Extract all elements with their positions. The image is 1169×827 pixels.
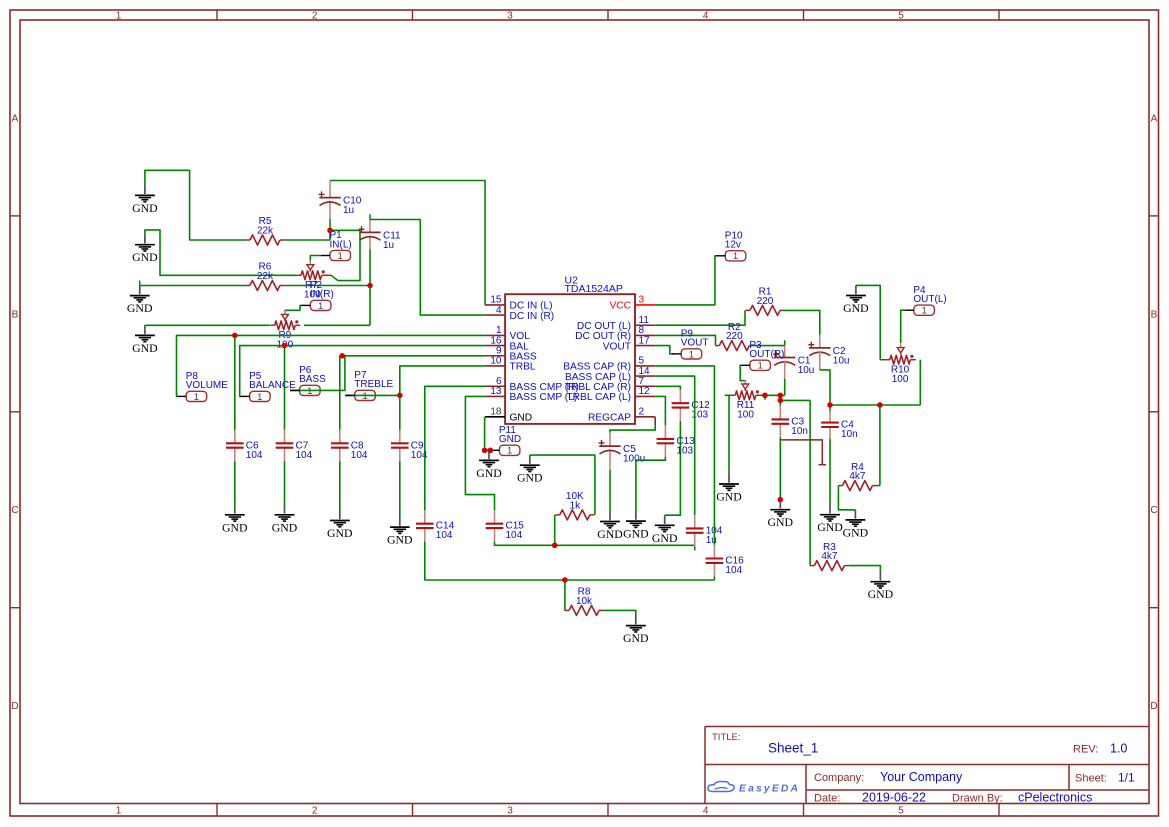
wire P3 to R11 wiper [740,365,745,382]
wire U2 pin12 to C13 [655,396,665,425]
resistor 10K 1k [555,491,594,520]
resistor R4 4k7 [838,462,880,491]
potentiometer R10 100 [880,355,916,385]
wire R8 to ground [604,610,636,615]
U2 pin 4 DC IN (R) [485,305,554,322]
op-amp U2 TDA1524AP body [505,275,635,424]
wire G1 to R5 [145,170,246,240]
svg-text:1: 1 [257,392,262,403]
svg-text:104: 104 [506,530,523,541]
svg-text:GND: GND [476,466,502,480]
svg-text:GND: GND [132,250,158,264]
svg-text:5: 5 [898,10,904,21]
svg-text:100: 100 [892,374,909,385]
wire cap bottom stub [694,546,696,550]
ground G15 [768,500,794,530]
wire VOL net P8 to U2 pin1 [177,335,485,396]
wire C8 to ground [339,461,341,510]
ground G19 [843,285,869,315]
svg-text:2: 2 [312,806,318,817]
svg-text:2: 2 [312,10,318,21]
R7 wiper arrow [307,260,314,271]
svg-text:DC IN (R): DC IN (R) [510,311,555,322]
ground G12 [623,511,649,541]
wire U2 pin18 to P11 ground [485,417,490,451]
svg-text:104: 104 [436,530,453,541]
U2 pin 9 BASS [485,346,537,363]
svg-text:VCC: VCC [609,301,631,312]
svg-text:BALANCE: BALANCE [249,380,296,391]
capacitor C3 10n [772,400,808,437]
resistor R5 22k [246,216,285,245]
svg-text:C: C [11,505,18,516]
U2 pin 11 DC OUT (L) [577,315,655,332]
svg-text:IN(L): IN(L) [330,239,352,250]
svg-text:1u: 1u [343,205,354,216]
capacitor C12 103 [672,390,711,421]
wire G10 to 10K resistor [530,455,595,515]
svg-text:GND: GND [517,471,543,485]
svg-text:C: C [1150,505,1157,516]
wire U2 pin17 to P9 [655,346,673,354]
U2 pin 5 BASS CAP (R) [563,356,655,373]
svg-text:GND: GND [623,527,649,541]
header P11 GND [490,425,521,457]
wire VCC U2 pin3 to P10 [655,256,716,305]
svg-text:1/1: 1/1 [1118,771,1135,785]
wire G4 to R9 [145,324,270,326]
svg-text:Sheet_1: Sheet_1 [768,741,818,756]
svg-text:GND: GND [327,526,353,540]
svg-text:GND: GND [623,631,649,645]
header P6 BASS [290,365,326,397]
wire U2 pin11 to R1 [655,310,745,325]
wire U2 pin2 REGCAP to C5 [610,417,655,433]
wire C11 top to U2 pin4 [370,214,485,315]
svg-text:10n: 10n [791,426,808,437]
ground G3 [127,281,153,316]
wire node D rail to R10 [919,360,921,405]
svg-text:GND: GND [132,201,158,215]
ground G5 [222,505,248,535]
svg-text:220: 220 [726,331,743,342]
svg-text:104: 104 [351,450,368,461]
svg-text:GND: GND [510,413,533,424]
wire C12 to ground [665,421,681,515]
header P5 BALANCE [240,371,296,403]
svg-text:B: B [1151,309,1158,320]
wire C7 to ground [284,461,286,505]
header P3 OUT(R) [741,340,785,372]
svg-text:D: D [11,701,18,712]
svg-text:REV:: REV: [1073,744,1098,756]
svg-text:12: 12 [639,386,651,397]
wire TRBL net to U2 pin10 [400,366,485,396]
ground G20 [623,616,649,646]
svg-text:GND: GND [716,490,742,504]
wire C6 to ground [234,461,236,505]
svg-text:OUT(R): OUT(R) [749,349,784,360]
capacitor C11 1u [359,218,402,251]
node bottom rail junction [562,577,567,582]
svg-text:104: 104 [725,565,742,576]
svg-text:1k: 1k [570,500,582,511]
wire C13 to ground [636,457,666,511]
svg-text:4: 4 [496,305,502,316]
U2 pin 15 DC IN (L) [485,295,553,312]
svg-text:104: 104 [246,450,263,461]
svg-text:1: 1 [318,301,323,312]
svg-text:TREBLE: TREBLE [354,379,393,390]
wire P2 to R9 wiper [285,305,301,312]
node R11 dots [762,393,783,404]
ground G10 [517,455,543,485]
svg-text:GND: GND [652,531,678,545]
potentiometer R11 100 [731,390,761,420]
wire node to R3 column [780,400,810,565]
svg-text:GND: GND [597,527,623,541]
U2 pin 14 BASS CAP (L) [565,366,655,383]
ground G18 [868,572,894,602]
svg-text:4: 4 [703,806,709,817]
wire R6 to node B [284,285,370,287]
U2 pin 8 DC OUT (R) [575,325,655,342]
svg-text:13: 13 [490,386,502,397]
svg-text:10n: 10n [841,429,858,440]
wire C3 to ground [778,437,783,502]
wire C4 to ground [829,439,831,505]
capacitor C1 10u [773,346,814,376]
resistor R8 10k [565,587,604,616]
capacitor C8 104 [331,430,368,461]
svg-text:18: 18 [490,407,502,418]
svg-text:GND: GND [843,301,869,315]
wire node A to C11 column [330,230,360,280]
capacitor C10 1u [319,181,362,231]
wire P1 to R7 wiper [310,256,320,262]
capacitor C15 104 [486,510,525,541]
wire G19 to R10 left [856,285,880,359]
wire C2 to node D [820,351,830,405]
svg-text:1.0: 1.0 [1110,742,1127,756]
wire U2 pin7 to C12 [655,386,680,389]
wire G2 to R7 [145,230,297,275]
capacitor C13 103 [657,425,696,456]
wire BAL to C7 [284,346,286,430]
U2 pin 2 REGCAP [588,407,655,424]
svg-text:1: 1 [116,806,122,817]
svg-text:22k: 22k [257,225,274,236]
svg-text:1: 1 [733,251,738,262]
svg-text:Your Company: Your Company [880,770,963,784]
svg-text:EasyEDA: EasyEDA [739,784,800,795]
header P4 OUT(L) [905,285,947,317]
wire R1 to C2 [785,310,820,334]
U2 pin 3 VCC [609,295,655,312]
wire VOL to C6 [234,335,236,430]
junction dots overlay [232,228,883,583]
node B junction [367,283,372,288]
svg-text:IN(R): IN(R) [310,289,334,300]
svg-text:VOUT: VOUT [681,338,709,349]
wire node E to R4 [879,405,881,486]
node A junction [327,228,332,233]
svg-text:GND: GND [868,587,894,601]
U2 pin 6 BASS CMP (R) [485,376,579,393]
ground G7 [327,510,353,540]
svg-text:VOUT: VOUT [603,341,631,352]
node VOL junction [232,333,237,338]
capacitor C14 104 [416,510,455,541]
wire C16 to bottom rail [713,576,715,580]
svg-text:2: 2 [639,407,645,418]
svg-text:220: 220 [757,296,774,307]
svg-text:GND: GND [499,434,521,445]
svg-text:5: 5 [898,806,904,817]
ground G9 [476,450,502,480]
potentiometer R7 100 [297,270,338,300]
node TRBL junction [397,393,402,398]
ground G17 [843,510,869,540]
header P7 TREBLE [346,370,394,402]
U2 pin 7 TRBL CAP (R) [565,376,655,393]
wire U2 pin13 to C15 [465,396,494,510]
wire C9 to ground [399,461,401,517]
svg-text:1: 1 [362,391,367,402]
wire BAL net P5 to U2 pin16 [240,346,485,397]
svg-text:GND: GND [817,520,843,534]
svg-text:Drawn By:: Drawn By: [952,793,1003,805]
svg-text:GND: GND [127,301,153,315]
svg-text:TITLE:: TITLE: [712,732,741,743]
wire P4 to R10 wiper [901,310,905,343]
floating stub near C3 [781,440,826,465]
svg-text:TRBL: TRBL [510,362,536,373]
ground G11 [597,511,623,541]
svg-text:D: D [1150,701,1157,712]
svg-text:104: 104 [296,450,313,461]
svg-text:A: A [12,114,19,125]
svg-text:GND: GND [843,525,869,539]
svg-text:100u: 100u [623,454,645,465]
node E junction [877,402,882,407]
svg-text:1: 1 [338,251,343,262]
svg-text:GND: GND [272,520,298,534]
wire R4 left to ground [838,486,855,510]
svg-text:4k7: 4k7 [821,551,838,562]
wire U2 pin5 to C16 [655,366,714,545]
header P1 IN(L) [321,230,352,262]
wire P7 pin [345,394,400,396]
capacitor 104 1u [686,515,723,546]
header P8 VOLUME [177,371,228,403]
wire R5 to node A [285,230,331,240]
svg-text:GND: GND [387,533,413,547]
ground G4 [132,325,158,355]
R10 wiper arrow [897,343,904,354]
svg-text:GND: GND [132,341,158,355]
wire C1 bottom to R11 net [784,361,786,396]
svg-text:1u: 1u [383,240,394,251]
wire node D rail [830,404,920,406]
wire R2 to C1 top [753,340,785,345]
svg-text:103: 103 [676,445,693,456]
svg-text:100: 100 [737,410,754,421]
node D junction [827,402,832,412]
ground G14 [716,474,742,504]
svg-text:OUT(L): OUT(L) [913,294,946,305]
wire R11 right net [760,394,784,396]
svg-text:TDA1524AP: TDA1524AP [565,283,623,295]
resistor R2 220 [716,322,754,351]
header P9 VOUT [672,329,709,361]
capacitor C5 100u [599,433,646,471]
wire BASS to C8 [339,356,341,430]
svg-text:BASS: BASS [299,374,326,385]
wire R3 to ground [849,566,881,572]
svg-text:2019-06-22: 2019-06-22 [862,791,926,805]
svg-text:1: 1 [116,10,122,21]
svg-text:10u: 10u [833,355,850,366]
svg-text:3: 3 [507,806,513,817]
svg-text:17: 17 [639,335,651,346]
wire BASS net to U2 pin9 [340,355,485,357]
capacitor C4 10n [821,411,857,441]
EasyEDA logo [708,782,800,795]
svg-text:10: 10 [490,356,502,367]
svg-text:REGCAP: REGCAP [588,413,631,424]
wire TRBL to C9 [399,395,401,429]
svg-text:Company:: Company: [814,772,864,784]
ground G1 [132,185,158,215]
resistor R1 220 [746,287,785,316]
U2 pin 18 GND [485,407,532,424]
capacitor C7 104 [276,430,313,461]
svg-text:Sheet:: Sheet: [1075,773,1107,785]
svg-text:1: 1 [194,392,199,403]
header P10 12v [716,230,746,262]
svg-text:cPelectronics: cPelectronics [1018,791,1092,805]
svg-text:4: 4 [703,10,709,21]
R11 wiper arrow [742,380,749,391]
svg-text:1: 1 [689,349,694,360]
potentiometer R9 100 [270,320,300,350]
wire BASS to P6 [290,356,345,391]
U2 pin 13 BASS CMP (L) [485,386,577,403]
capacitor C2 10u [808,334,849,366]
capacitor C6 104 [226,430,263,461]
wire C5 to ground [609,470,611,512]
header P2 IN(R) [301,280,334,312]
ground G16 [817,505,843,535]
title block [705,727,1149,805]
wire bottom rail to R8 [564,580,566,610]
node P11 junction dots [482,448,493,453]
U2 pin 10 TRBL [485,356,536,373]
svg-text:10u: 10u [798,365,815,376]
wire R11 left to ground [725,395,731,474]
wire G3 to R6 [140,285,246,287]
svg-text:3: 3 [639,295,645,306]
U2 pin 12 TRBL CAP (L) [566,386,655,403]
wire U2 pin6 to C14 [425,386,485,510]
capacitor C16 104 [706,545,745,576]
svg-text:TRBL CAP (L): TRBL CAP (L) [566,392,631,403]
wire U2 pin14 to cap 104 1u [655,376,695,515]
svg-text:1: 1 [307,386,312,397]
svg-text:10k: 10k [576,596,593,607]
svg-text:1: 1 [921,306,926,317]
resistor R3 4k7 [810,542,849,571]
svg-text:Date:: Date: [814,793,840,805]
svg-text:GND: GND [222,520,248,534]
node BASS junction [340,353,345,358]
wire C10 top to U2 pin15 [330,181,485,305]
U2 pin 16 BAL [485,335,529,352]
wire C11 bottom to R9 [304,250,370,326]
U2 pin 1 VOL [485,325,530,342]
node mid rail junction [552,543,557,548]
svg-text:1: 1 [507,446,512,457]
wire C14 to bottom rail [425,542,715,580]
svg-text:VOLUME: VOLUME [186,380,229,391]
svg-text:22k: 22k [257,271,274,282]
wire C15 to mid rail [495,542,695,546]
svg-text:3: 3 [507,10,513,21]
ground G8 [387,517,413,547]
wire 10K to mid rail [554,515,556,545]
U2 pin 17 VOUT [603,335,656,352]
svg-text:1: 1 [757,361,762,372]
wire U2 pin8 to R2 [655,335,715,345]
node BAL junction [282,343,287,348]
ground G13 [652,515,678,545]
svg-text:4k7: 4k7 [849,471,866,482]
ground G2 [132,235,158,265]
svg-text:12v: 12v [725,240,741,251]
capacitor C9 104 [391,430,428,461]
svg-text:GND: GND [768,515,794,529]
resistor R6 22k [245,262,284,291]
svg-text:A: A [1151,114,1158,125]
svg-text:B: B [12,309,19,320]
R9 wiper arrow [282,310,289,321]
ground G6 [272,505,298,535]
